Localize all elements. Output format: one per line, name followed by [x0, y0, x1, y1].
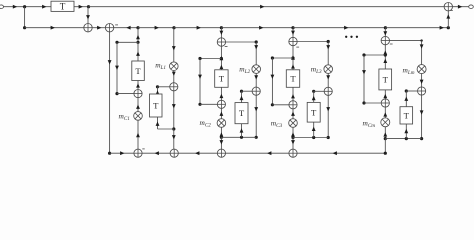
cell1 loop horizontal [158, 128, 174, 130]
cell3 wire T out into top adder [292, 46, 294, 70]
cellM wire acc to T [384, 90, 386, 99]
cell3 feedback into acc adder [272, 104, 289, 106]
cellM wire TL out to P [406, 90, 417, 92]
svg-text:T: T [219, 74, 225, 84]
cell2 feedback into acc adder [200, 103, 217, 105]
node C3 on line2 [291, 26, 294, 29]
cellM delay T box [379, 69, 392, 90]
cell1 mult MC1 [134, 112, 143, 121]
cell2 wire TL out to adder P [242, 90, 253, 92]
minus mark at B1 [142, 148, 144, 150]
cell2 feedback down wire [199, 59, 201, 105]
cell3 adder P [324, 87, 332, 95]
cell2 TL out corner dot [240, 90, 243, 93]
cell2 feedback corner dot [198, 57, 201, 60]
cellM delay TL [400, 107, 413, 124]
node C2 on line2 [220, 26, 223, 29]
wire node B drop into S1 [87, 7, 89, 24]
wire node A drop [24, 7, 26, 28]
cell2 loop T junction dot [240, 136, 243, 139]
cell3 mult L [324, 65, 333, 74]
bottom wire B4 to B3 [226, 152, 289, 154]
cell3 wire TL up [313, 91, 315, 102]
minus sign at output adder [450, 9, 453, 11]
cell3 wire mult L to adder P [327, 73, 329, 87]
cellM feedback top wire [364, 54, 385, 56]
cell1 feedback down [116, 42, 118, 93]
cell3 minus at top adder [296, 46, 299, 48]
cell3 bottom adder [289, 149, 297, 157]
cell1 adder A1 [134, 90, 142, 98]
cell1 mult ML1 [170, 62, 179, 71]
wire T0 to node B [74, 6, 89, 8]
cell2 mult C [217, 119, 226, 128]
cell1 feedback corner dot [115, 41, 118, 44]
cell3 delay T box [286, 70, 299, 88]
cellM L corner [420, 39, 422, 41]
svg-text:T: T [135, 66, 141, 76]
cell2 top adder [217, 38, 225, 46]
wire input to node A [4, 6, 52, 8]
cell1 wire T1 out up [137, 42, 139, 61]
cellM junction below top adder [384, 53, 387, 56]
cell1 wire B1 up to MC1 [137, 120, 139, 149]
cell3 feedback top wire [272, 57, 293, 59]
cell3 L loop corner dot [327, 136, 330, 139]
cell1 wire J1 left [117, 41, 138, 43]
cell2 wire loop into TL bottom [241, 124, 243, 138]
node A2 corner dot [23, 26, 26, 29]
cell3 top adder [289, 37, 297, 45]
delay T0 [51, 1, 74, 11]
cell2 wire top adder to L corner [226, 41, 257, 43]
cell1 junction dot loop [172, 127, 175, 130]
cell3 wire acc adder to T [292, 87, 294, 100]
output adder [444, 3, 452, 11]
cell2 acc adder [217, 100, 225, 108]
wire arrow into delay T0 [42, 5, 46, 9]
wire to adder S1 [25, 27, 84, 29]
cell3 feedback corner2 dot [271, 103, 274, 106]
cell2 wire acc adder to T [220, 87, 222, 100]
cell1 wire TL1 up [157, 87, 159, 95]
cell3 junction below top adder [291, 56, 294, 59]
cell3 wire L corner down to mult L [327, 42, 329, 65]
cellM wire T out into top adder [384, 45, 386, 69]
cell1 wire P1 down [173, 91, 175, 129]
cell2 bottom adder [217, 149, 225, 157]
cellM wire mult L to adder P [421, 74, 423, 87]
cellM L wire down to mult [421, 41, 423, 65]
cellM loop T junction dot [405, 137, 408, 140]
cell2 L corner dot [255, 40, 258, 43]
cellM wire mult to acc [384, 107, 386, 118]
cell2 wire mult L to adder P [255, 73, 257, 87]
wire to output terminal [453, 6, 469, 8]
bottom wire CM to B4 [297, 152, 385, 154]
bottom wire B2 to B1 [142, 152, 170, 154]
svg-text:T: T [404, 110, 410, 120]
error corner dot [108, 152, 111, 155]
cell2 wire T out into top adder [220, 46, 222, 70]
adder S1 [84, 24, 92, 32]
cell3 TL out corner dot [312, 90, 315, 93]
cell2 minus at top adder [225, 45, 228, 47]
svg-text:T: T [311, 107, 317, 117]
cellM loop corner dot [420, 137, 423, 140]
cell3 wire mid junction down to bottom adder [292, 138, 294, 150]
cell2 wire TL up [241, 91, 243, 102]
cellM mult L [417, 65, 426, 74]
cell1 wire mult MC1 to A1 [137, 98, 139, 112]
cell2 feedback corner2 dot [198, 103, 201, 106]
wire S2 to node C1 [114, 27, 138, 29]
cell1 wire TL1 out to P1 [158, 86, 170, 88]
ellipsis dots [345, 36, 347, 38]
bottom wire B3 to B2 [178, 152, 217, 154]
cell2 wire L corner down to mult L [255, 42, 257, 65]
cell3 loop horizontal wire [293, 137, 328, 139]
cellM feedback corner2 dot [362, 101, 365, 104]
cell2 loop horizontal wire [221, 136, 256, 138]
cell2 wire junction up into mult C [220, 127, 222, 137]
minus at cellM top adder [390, 43, 393, 45]
corner dot right [447, 26, 450, 29]
cell2 wire mult to acc adder [220, 108, 222, 118]
cell2 L loop corner dot [255, 136, 258, 139]
cell1 wire down to B2 [173, 129, 175, 149]
cellM mult C [381, 118, 390, 127]
cell3 wire junction up into mult C [292, 127, 294, 137]
wire line2 CM to corner [385, 27, 448, 29]
wire up to output adder [447, 11, 449, 28]
cellM adder P [418, 87, 426, 95]
wire line2 C1 to L1 [138, 27, 174, 29]
cell1 wire line2 tap up [137, 28, 139, 43]
node L1 on line2 [172, 26, 175, 29]
cell2 wire mid junction down to bottom adder [220, 137, 222, 149]
cell2 delay T box [215, 70, 228, 88]
input terminal [0, 5, 4, 9]
cell3 wire top adder to L corner [297, 41, 328, 43]
cell2 mult L [252, 65, 261, 74]
wire line2 C3 to CM [293, 27, 385, 29]
wire S1 to S2 [92, 27, 105, 29]
cell2 delay TL [235, 103, 248, 124]
svg-text:T: T [239, 108, 245, 118]
cell1 junction J1 [136, 41, 139, 44]
cell2 adder P [252, 87, 260, 95]
cell3 L corner dot [327, 40, 330, 43]
cellM feedback into acc adder [364, 102, 381, 104]
cell3 mid junction dot [291, 136, 294, 139]
svg-text:T: T [60, 2, 66, 12]
cell1 feedback corner2 dot [115, 92, 118, 95]
node B junction [87, 5, 90, 8]
cell2 junction below top adder [220, 57, 223, 60]
node C1 on line2 [136, 26, 139, 29]
cell2 feedback top wire [200, 58, 221, 60]
wire error to adder B1 [110, 152, 134, 154]
cellM L wire from top adder [390, 40, 422, 42]
cell3 mult C [289, 119, 298, 128]
wire line2 L1 to C2 [174, 27, 221, 29]
cell3 feedback down wire [271, 58, 273, 105]
cell1 feedback into adder A1 [117, 93, 134, 95]
output terminal [469, 5, 474, 9]
cellM wire P down [421, 95, 423, 139]
cell3 loop T junction dot [312, 136, 315, 139]
node A junction [23, 5, 26, 8]
wire top line to output adder [89, 6, 445, 8]
svg-text:T: T [290, 74, 296, 84]
cell3 delay TL [307, 102, 320, 122]
cell2 mid junction dot [220, 136, 223, 139]
cellM acc adder [381, 99, 389, 107]
cell3 wire line2 into top adder [292, 28, 294, 38]
cell1 adder B1 bottom [134, 149, 142, 157]
cell3 wire TL out to adder P [314, 90, 324, 92]
node CM on line2 [384, 26, 387, 29]
cellM wire junction to mult C [384, 127, 386, 139]
cell1 delay T1 [132, 61, 145, 81]
wire error down [109, 32, 111, 153]
cell2 wire line2 into top adder [220, 28, 222, 38]
cellM mid junction dot [384, 137, 387, 140]
cell1 delay TL1 [150, 94, 163, 117]
cell1 adder P1 [170, 83, 178, 91]
cell3 wire adder P down [327, 95, 329, 137]
adder S2 error [105, 24, 113, 32]
cell1 wire adder A1 to T1 [137, 81, 139, 90]
cell3 wire mult to acc adder [292, 109, 294, 119]
cellM loop horizontal [385, 138, 421, 140]
svg-text:T: T [383, 74, 389, 84]
cell1 wire loop into TL1 [157, 117, 159, 129]
cellM feedback corner dot [362, 53, 365, 56]
cellM wire loop into TL [405, 124, 407, 139]
cell1 adder B2 bottom [170, 149, 178, 157]
cellM TL out corner dot [405, 89, 408, 92]
cell1 TL1 out corner dot [156, 85, 159, 88]
cell1 L wire down from line2 [173, 28, 175, 62]
cellM feedback down wire [363, 55, 365, 103]
cellM wire junction down [384, 139, 386, 154]
wire line2 C2 to C3 [221, 27, 293, 29]
cell1 wire ML1 to adder P1 [173, 71, 175, 83]
cellM top adder [381, 36, 389, 44]
cell3 acc adder [289, 101, 297, 109]
cell3 feedback corner dot [271, 56, 274, 59]
cellM wire line2 into top adder [384, 28, 386, 37]
cellM bottom corner dot [384, 152, 387, 155]
cell3 wire loop into TL bottom [313, 122, 315, 137]
cellM wire TL up [405, 91, 407, 107]
svg-text:T: T [153, 101, 159, 111]
minus sign at S2 [115, 24, 118, 26]
cell2 wire adder P down [255, 95, 257, 137]
